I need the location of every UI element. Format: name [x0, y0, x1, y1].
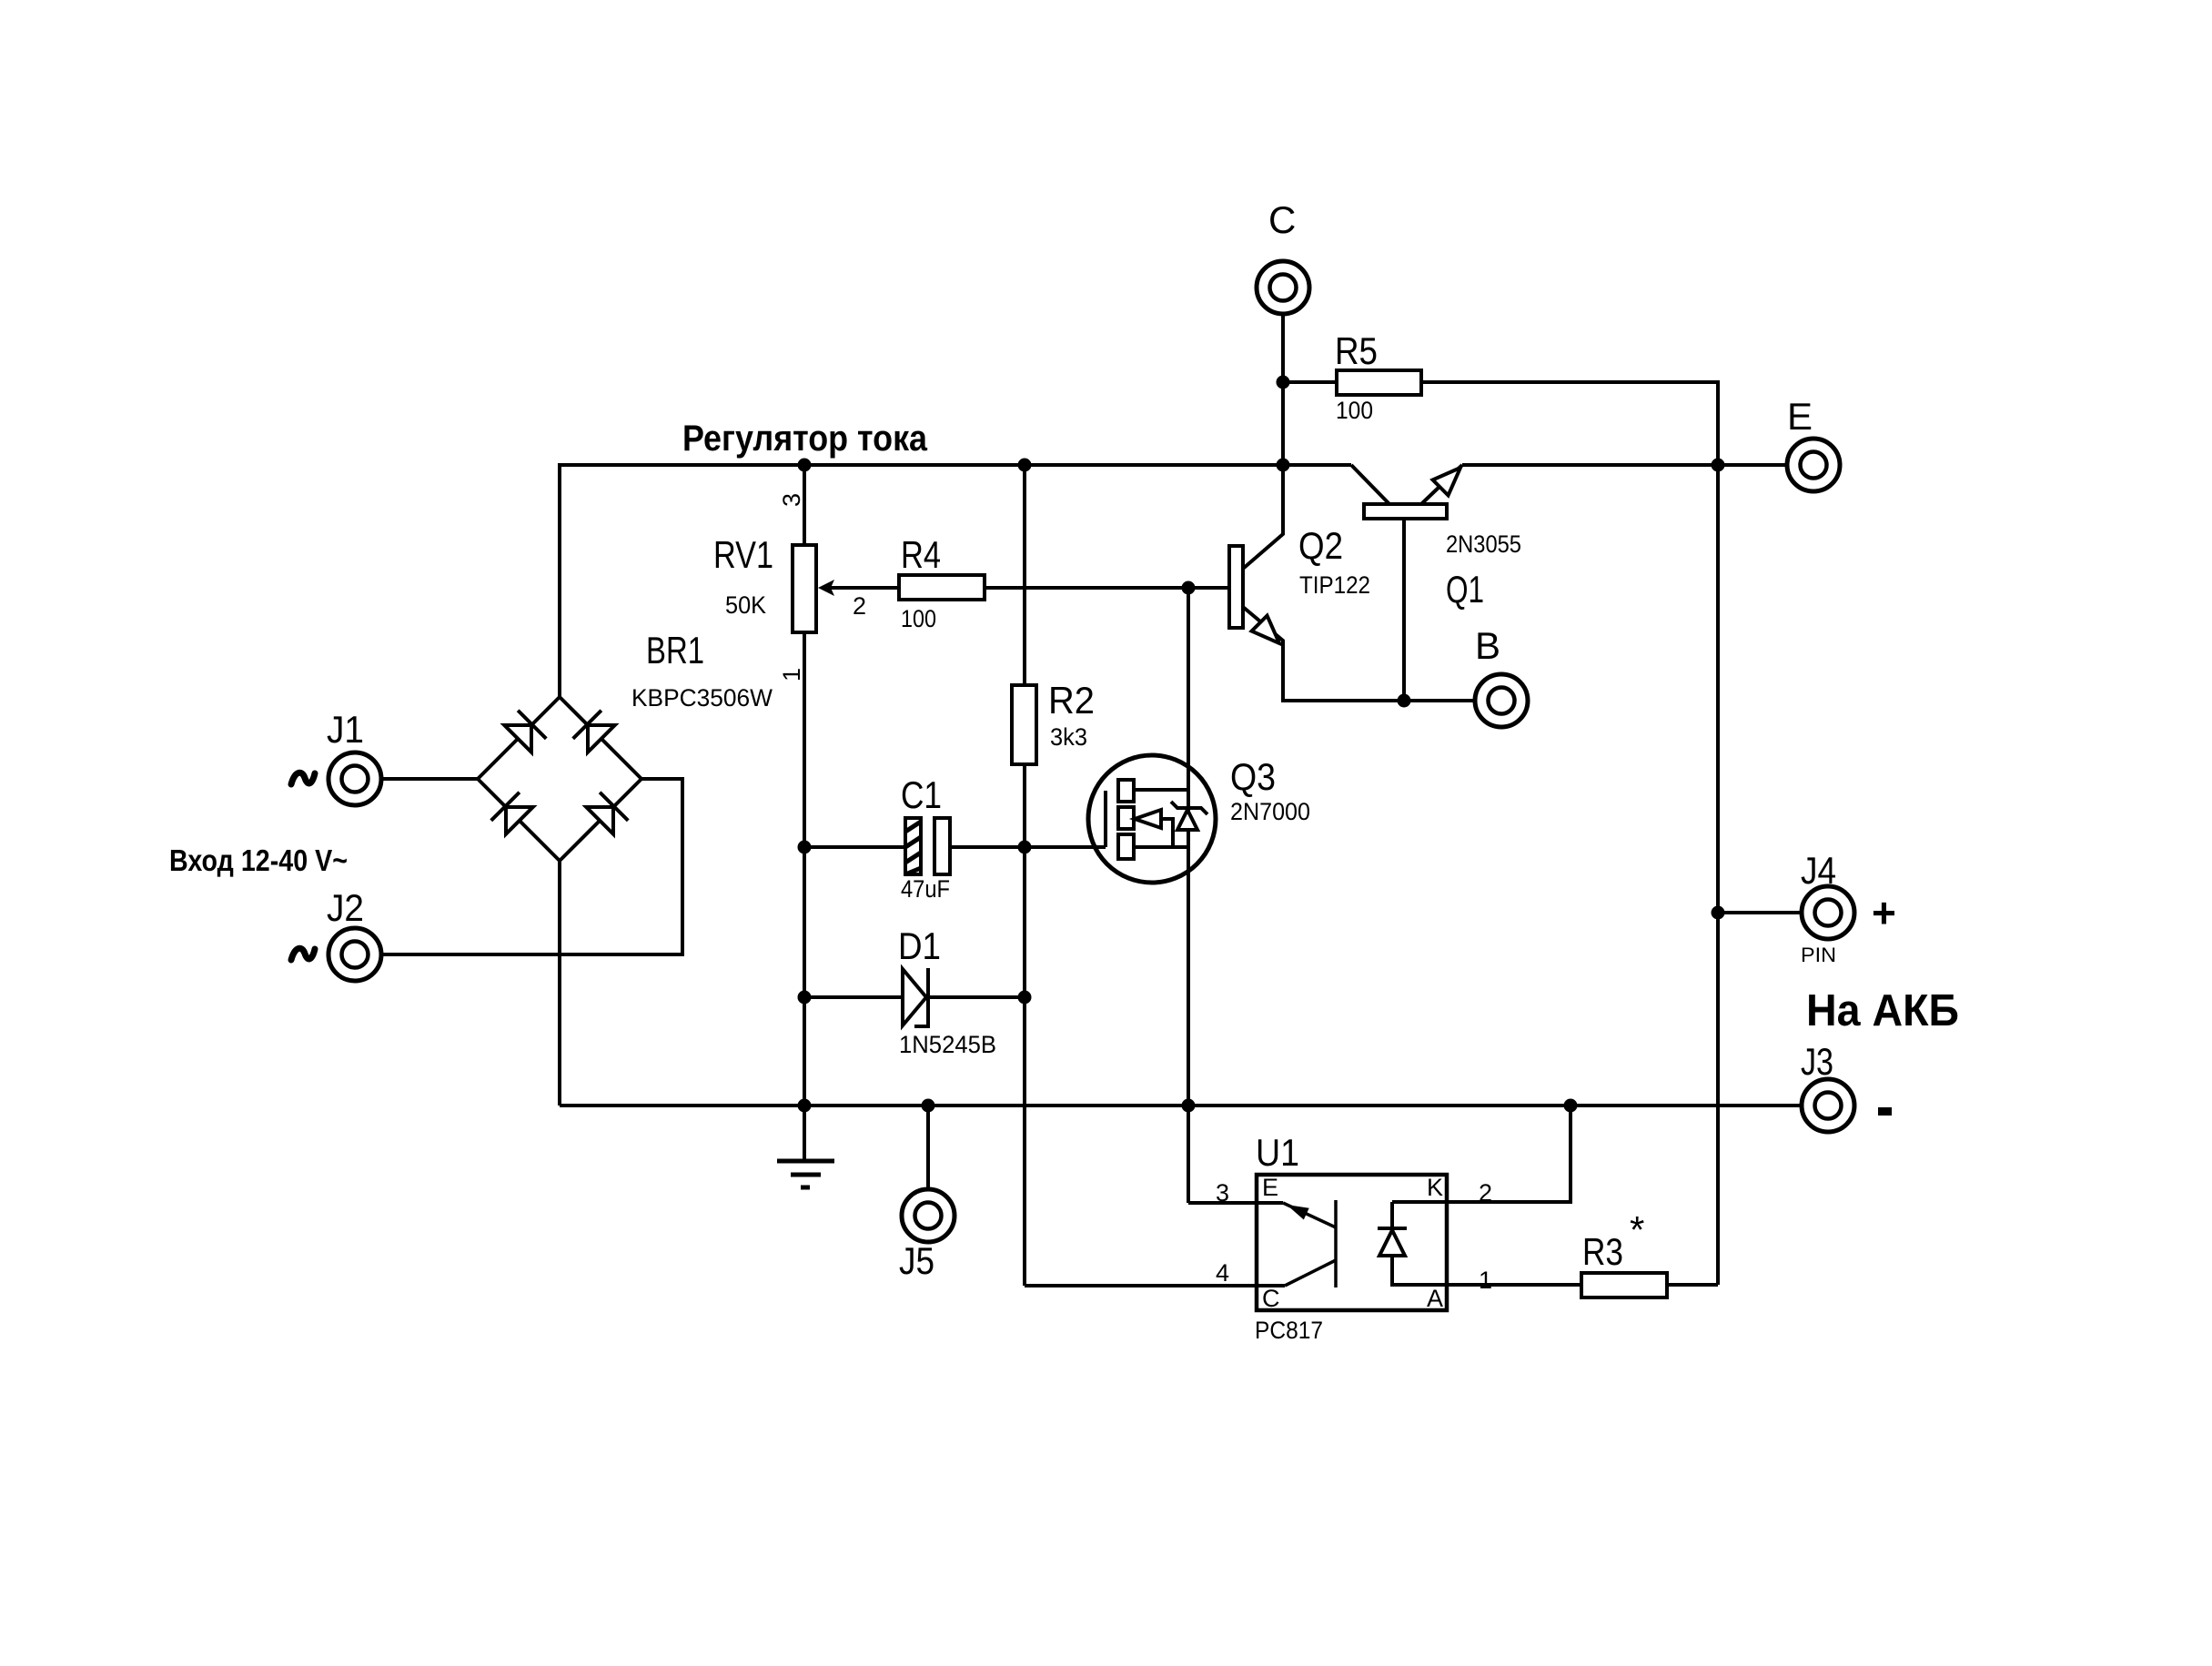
svg-text:J4: J4 — [1801, 849, 1836, 892]
svg-text:1N5245B: 1N5245B — [899, 1031, 996, 1058]
junction ground rail / U1 pin2 branch — [1564, 1099, 1578, 1113]
svg-text:1: 1 — [1479, 1267, 1492, 1294]
svg-text:U1: U1 — [1256, 1131, 1299, 1174]
svg-text:Q2: Q2 — [1298, 524, 1343, 567]
capacitor C1 — [804, 818, 1106, 874]
pad C — [1257, 261, 1309, 314]
label - — [1878, 1107, 1892, 1116]
junction R5 / C pad column — [1277, 376, 1290, 389]
wire J5 stub — [926, 1106, 930, 1189]
svg-text:Q3: Q3 — [1230, 755, 1276, 798]
svg-text:2N7000: 2N7000 — [1230, 798, 1310, 825]
ground — [777, 1106, 834, 1187]
pad B — [1475, 674, 1528, 727]
pad J3 — [1802, 1079, 1854, 1132]
junction top rail / E column — [1712, 459, 1725, 472]
junction R2 / D1 row — [1018, 991, 1032, 1005]
wire ground rail — [560, 1104, 1800, 1107]
wire top rail right segment — [1462, 463, 1785, 467]
transistor Q3 2N7000 — [1088, 588, 1216, 1106]
junction Q1 base / B — [1398, 694, 1411, 708]
svg-text:E: E — [1787, 395, 1813, 438]
optocoupler U1 PC817 — [1025, 1106, 1581, 1310]
resistor R2 — [1012, 465, 1036, 1286]
transistor Q2 TIP122 — [1229, 465, 1473, 701]
svg-text:100: 100 — [1336, 397, 1373, 424]
svg-text:K: K — [1427, 1174, 1443, 1201]
svg-text:4: 4 — [1216, 1259, 1229, 1287]
svg-text:1: 1 — [778, 668, 805, 682]
svg-text:2: 2 — [1479, 1179, 1492, 1207]
wire J2 to bridge right corner — [381, 779, 682, 954]
pad J4 — [1802, 886, 1854, 939]
svg-text:TIP122: TIP122 — [1299, 571, 1370, 599]
transistor Q1 2N3055 — [1351, 460, 1468, 701]
svg-text:50K: 50K — [725, 591, 766, 619]
resistor R5 — [1283, 370, 1718, 1285]
wire J4 stub — [1718, 911, 1800, 914]
svg-text:3k3: 3k3 — [1050, 723, 1087, 751]
svg-text:R2: R2 — [1048, 679, 1095, 722]
wire bridge bottom to ground rail — [558, 861, 561, 1106]
pad J2 — [328, 928, 381, 981]
svg-text:A: A — [1427, 1285, 1443, 1312]
svg-text:C1: C1 — [901, 773, 942, 816]
svg-text:RV1: RV1 — [713, 533, 773, 576]
label ~ J2 — [291, 948, 315, 960]
svg-text:3: 3 — [778, 493, 805, 507]
svg-text:PIN: PIN — [1801, 944, 1836, 966]
junction D1 / RV1 column — [798, 991, 812, 1005]
svg-text:J5: J5 — [899, 1239, 934, 1282]
svg-text:3: 3 — [1216, 1179, 1229, 1207]
svg-text:+: + — [1872, 889, 1896, 936]
svg-text:J2: J2 — [327, 886, 364, 929]
pad E — [1787, 439, 1840, 491]
svg-text:Q1: Q1 — [1446, 568, 1484, 611]
wire J1 to bridge — [381, 777, 478, 781]
junction top rail / C-R5 column — [1277, 459, 1290, 472]
svg-text:PC817: PC817 — [1255, 1317, 1323, 1344]
svg-text:2N3055: 2N3055 — [1446, 530, 1521, 558]
svg-text:R5: R5 — [1335, 329, 1378, 372]
junction ground rail / RV1 column — [798, 1099, 812, 1113]
svg-text:KBPC3506W: KBPC3506W — [631, 684, 773, 712]
svg-text:C: C — [1262, 1285, 1280, 1312]
svg-text:C: C — [1268, 198, 1296, 241]
svg-text:J1: J1 — [327, 708, 364, 751]
junction Q2 base / Q3 drain — [1182, 581, 1196, 595]
svg-text:Регулятор тока: Регулятор тока — [682, 419, 928, 459]
resistor R3 — [1581, 1273, 1718, 1297]
svg-text:B: B — [1475, 624, 1500, 667]
svg-text:47uF: 47uF — [901, 875, 950, 903]
svg-text:Вход 12-40 V~: Вход 12-40 V~ — [169, 843, 348, 877]
junction ground rail / Q3 source — [1182, 1099, 1196, 1113]
junction top rail / R2 — [1018, 459, 1032, 472]
wire C pad column — [1281, 316, 1285, 465]
junction R2 / gate row — [1018, 841, 1032, 854]
label ~ J1 — [291, 772, 315, 784]
potentiometer RV1 — [793, 465, 899, 1106]
junction top rail / RV1 pin 3 — [798, 459, 812, 472]
svg-text:R4: R4 — [901, 533, 941, 576]
svg-text:J3: J3 — [1801, 1040, 1833, 1083]
svg-text:На АКБ: На АКБ — [1806, 986, 1959, 1035]
svg-text:E: E — [1262, 1174, 1278, 1201]
svg-text:BR1: BR1 — [646, 629, 704, 671]
svg-text:2: 2 — [853, 592, 866, 620]
pad J1 — [328, 752, 381, 805]
junction ground rail / J5 — [922, 1099, 935, 1113]
svg-text:100: 100 — [901, 605, 936, 632]
junction C1 / RV1 column — [798, 841, 812, 854]
resistor R4 — [899, 575, 1229, 600]
svg-text:*: * — [1630, 1208, 1644, 1251]
bridge BR1 — [478, 697, 641, 861]
junction J4 branch — [1712, 906, 1725, 920]
svg-text:D1: D1 — [898, 924, 941, 967]
wire Q3 source to U1 pin3 — [1187, 1106, 1190, 1203]
pad J5 — [902, 1189, 954, 1242]
zener diode D1 — [804, 968, 1025, 1026]
wire top rail left segment — [560, 465, 1351, 697]
svg-text:R3: R3 — [1582, 1230, 1623, 1273]
